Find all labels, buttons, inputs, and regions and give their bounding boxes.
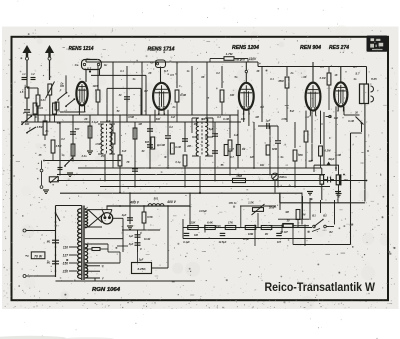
svg-text:0.1M: 0.1M [175, 146, 181, 149]
svg-text:3K: 3K [256, 70, 259, 73]
svg-text:2nF: 2nF [105, 119, 111, 123]
svg-text:S.7: S.7 [164, 69, 169, 73]
svg-text:0.17: 0.17 [229, 148, 234, 151]
svg-text:8μF: 8μF [209, 127, 214, 131]
svg-text:465 V: 465 V [129, 201, 140, 205]
svg-text:2K: 2K [83, 118, 87, 121]
svg-text:8n: 8n [46, 130, 49, 133]
svg-text:2μF: 2μF [121, 213, 127, 217]
svg-text:1nF: 1nF [234, 133, 239, 137]
svg-text:0.4M: 0.4M [159, 144, 165, 147]
svg-text:3.04: 3.04 [40, 98, 46, 102]
svg-text:600: 600 [145, 141, 150, 144]
svg-text:0.1M: 0.1M [348, 120, 354, 123]
svg-text:15M: 15M [236, 174, 242, 178]
svg-text:0.05: 0.05 [371, 77, 377, 81]
svg-text:RENS 1214: RENS 1214 [69, 46, 95, 52]
svg-text:0.3: 0.3 [217, 116, 221, 119]
svg-text:F: F [60, 89, 62, 93]
svg-text:nat.grid: nat.grid [235, 58, 245, 62]
svg-text:5n: 5n [235, 76, 238, 79]
svg-text:8K: 8K [201, 76, 204, 79]
svg-text:20nF: 20nF [268, 206, 276, 210]
svg-text:0.1μF: 0.1μF [183, 241, 190, 244]
svg-text:127: 127 [63, 253, 69, 257]
svg-text:4n: 4n [132, 78, 136, 81]
svg-text:2n: 2n [290, 72, 294, 75]
svg-text:0.1M: 0.1M [223, 117, 230, 121]
svg-text:1n: 1n [187, 70, 190, 73]
svg-text:180: 180 [194, 234, 199, 237]
svg-text:65M: 65M [278, 79, 284, 83]
svg-text:RENS 1204: RENS 1204 [232, 45, 260, 51]
svg-text:0.2: 0.2 [216, 72, 220, 75]
svg-text:S.7: S.7 [353, 65, 357, 69]
svg-text:M1: M1 [47, 240, 51, 244]
svg-text:0.5: 0.5 [170, 74, 174, 77]
svg-text:4n: 4n [353, 78, 357, 81]
svg-text:100: 100 [343, 178, 348, 182]
svg-text:0.2: 0.2 [169, 125, 173, 129]
svg-text:B2: B2 [323, 214, 327, 218]
svg-text:62M: 62M [272, 147, 278, 151]
svg-text:3.4n: 3.4n [81, 155, 86, 158]
svg-text:Ca: Ca [75, 63, 79, 67]
svg-text:200V: 200V [214, 225, 221, 228]
svg-text:REN 904: REN 904 [300, 45, 322, 51]
svg-text:0.7: 0.7 [144, 90, 148, 93]
svg-text:0.1M: 0.1M [320, 76, 327, 80]
svg-text:11.5μF: 11.5μF [199, 210, 207, 213]
svg-text:800m: 800m [279, 175, 287, 179]
svg-text:2K: 2K [327, 116, 331, 119]
svg-text:16M: 16M [248, 232, 254, 236]
svg-text:20: 20 [354, 112, 358, 115]
svg-text:1.7M: 1.7M [226, 52, 233, 56]
svg-text:1.5M: 1.5M [95, 143, 101, 146]
svg-text:25n: 25n [193, 122, 199, 126]
svg-text:4nF: 4nF [121, 149, 127, 153]
svg-text:2K: 2K [147, 72, 151, 75]
svg-text:6K: 6K [303, 76, 306, 79]
svg-text:400 V: 400 V [166, 200, 177, 204]
svg-text:70 W: 70 W [34, 254, 43, 258]
svg-text:0.5M: 0.5M [128, 116, 134, 119]
svg-text:1nF: 1nF [171, 116, 176, 119]
svg-text:0.2M: 0.2M [325, 149, 332, 153]
svg-text:1.5: 1.5 [20, 90, 24, 94]
svg-text:RES 274: RES 274 [329, 45, 350, 51]
svg-text:5nF: 5nF [290, 110, 295, 113]
svg-text:F: F [102, 277, 104, 281]
svg-text:25: 25 [38, 154, 42, 157]
svg-text:S.7: S.7 [355, 72, 360, 76]
svg-text:0.3: 0.3 [260, 106, 264, 109]
svg-text:0.5: 0.5 [320, 66, 324, 69]
svg-text:17K A: 17K A [229, 202, 236, 205]
svg-text:12K: 12K [250, 156, 255, 159]
svg-text:7K: 7K [126, 161, 129, 164]
svg-text:12.5μF: 12.5μF [219, 241, 227, 244]
svg-text:RGN 1064: RGN 1064 [92, 287, 120, 293]
svg-text:5nF: 5nF [57, 121, 62, 125]
svg-text:501: 501 [154, 197, 159, 201]
svg-text:1K: 1K [334, 74, 337, 77]
svg-text:FμF: FμF [129, 243, 134, 246]
svg-text:~: ~ [25, 254, 29, 261]
svg-text:Reico-Transatlantik W: Reico-Transatlantik W [265, 280, 376, 294]
svg-text:0.6: 0.6 [305, 116, 309, 119]
svg-text:0.3M: 0.3M [180, 93, 187, 97]
svg-text:9n: 9n [281, 156, 284, 159]
svg-text:0.7: 0.7 [230, 156, 234, 159]
svg-text:3n: 3n [207, 144, 210, 147]
svg-text:2μF: 2μF [138, 257, 144, 261]
svg-text:220: 220 [62, 269, 69, 273]
svg-text:18n: 18n [260, 164, 265, 167]
svg-text:B1: B1 [312, 214, 316, 218]
svg-text:107: 107 [277, 241, 282, 244]
svg-text:100: 100 [334, 116, 339, 120]
svg-text:0.5M: 0.5M [56, 145, 62, 148]
svg-text:1μF: 1μF [129, 235, 134, 238]
svg-text:62μF: 62μF [328, 157, 334, 161]
svg-text:2n: 2n [172, 106, 176, 109]
svg-text:0.2: 0.2 [61, 138, 65, 141]
svg-text:S.7: S.7 [87, 66, 92, 70]
svg-text:0.1: 0.1 [120, 70, 124, 73]
svg-text:32 107: 32 107 [280, 231, 288, 234]
svg-text:20K: 20K [240, 118, 246, 121]
svg-text:0.1: 0.1 [270, 78, 274, 81]
svg-text:30 μF: 30 μF [243, 238, 250, 241]
svg-text:0.3M: 0.3M [335, 154, 341, 157]
svg-text:0.5M: 0.5M [37, 126, 43, 129]
svg-text:Ca: Ca [86, 57, 90, 61]
svg-text:110: 110 [63, 245, 68, 249]
svg-text:0.1μF: 0.1μF [92, 120, 99, 124]
svg-text:30K: 30K [156, 118, 161, 121]
svg-text:0.04: 0.04 [38, 107, 43, 110]
svg-text:150: 150 [63, 261, 69, 265]
